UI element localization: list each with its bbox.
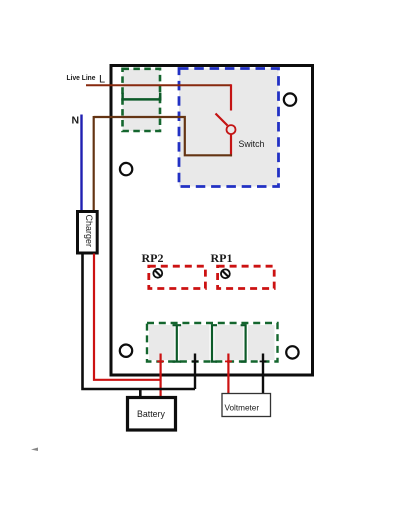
mounting hole top-right: [284, 93, 296, 105]
svg-text:Live Line: Live Line: [67, 73, 96, 82]
potentiometer RP1 (red dashed box): [218, 266, 275, 288]
board outline (PCB): [111, 66, 313, 376]
svg-text:N: N: [72, 115, 80, 127]
wire: battery negative branch: [139, 389, 142, 398]
wire: terminal 1 red to battery +: [157, 354, 164, 397]
svg-text:Voltmeter: Voltmeter: [225, 404, 260, 413]
J2 divider I-beam 1: [173, 325, 182, 361]
wire: brown vertical N drop to charger: [93, 116, 95, 211]
svg-text:Switch: Switch: [239, 139, 265, 149]
svg-text:RP2: RP2: [142, 251, 164, 265]
J2 bracket left of jumper: [212, 325, 217, 361]
jumper bracket inside J1: [123, 93, 161, 100]
switch enclosure (blue dashed box): [179, 69, 279, 187]
output connector J2 (bottom green dashed block): [147, 323, 278, 362]
svg-text:Battery: Battery: [137, 409, 165, 419]
wire: blue neutral vertical to charger: [80, 115, 82, 211]
wire: switch upper red vertical: [230, 84, 232, 110]
svg-text:RP1: RP1: [211, 251, 233, 265]
svg-text:L: L: [99, 74, 105, 86]
RP2 screw symbol: [153, 269, 162, 278]
wire: switch lower red vertical: [230, 134, 232, 156]
label Switch: [239, 139, 265, 149]
mounting hole bottom-left: [120, 345, 132, 357]
mounting hole bottom-right: [286, 346, 298, 358]
wire: terminal 2 black down: [192, 354, 199, 390]
label RP2: [142, 251, 164, 265]
RP1 screw symbol: [221, 269, 230, 278]
wire: brown return from switch to N node: [94, 117, 232, 155]
charger box: [78, 212, 98, 254]
wire: terminal 4 black to voltmeter: [260, 354, 267, 394]
battery box: [128, 398, 176, 431]
wire: terminal 3 red to voltmeter: [225, 354, 232, 394]
wire: live line brown horizontal: [86, 84, 231, 86]
mounting hole top-left: [120, 163, 132, 175]
switch contact circle: [227, 125, 236, 134]
switch lever (red): [216, 114, 228, 126]
label RP1: [211, 251, 233, 265]
J2 bracket right of jumper: [241, 325, 246, 361]
svg-text:Charger: Charger: [84, 215, 94, 248]
label N: [72, 115, 80, 127]
wire: charger red lead to battery +: [94, 254, 161, 380]
voltmeter box: [222, 394, 271, 417]
wire: charger black lead to battery -: [83, 254, 196, 390]
mains connector J1 (top green dashed block): [123, 69, 161, 131]
watermark smudge: [31, 448, 38, 452]
label Live Line L: [67, 73, 106, 86]
potentiometer RP2 (red dashed box): [149, 266, 206, 288]
